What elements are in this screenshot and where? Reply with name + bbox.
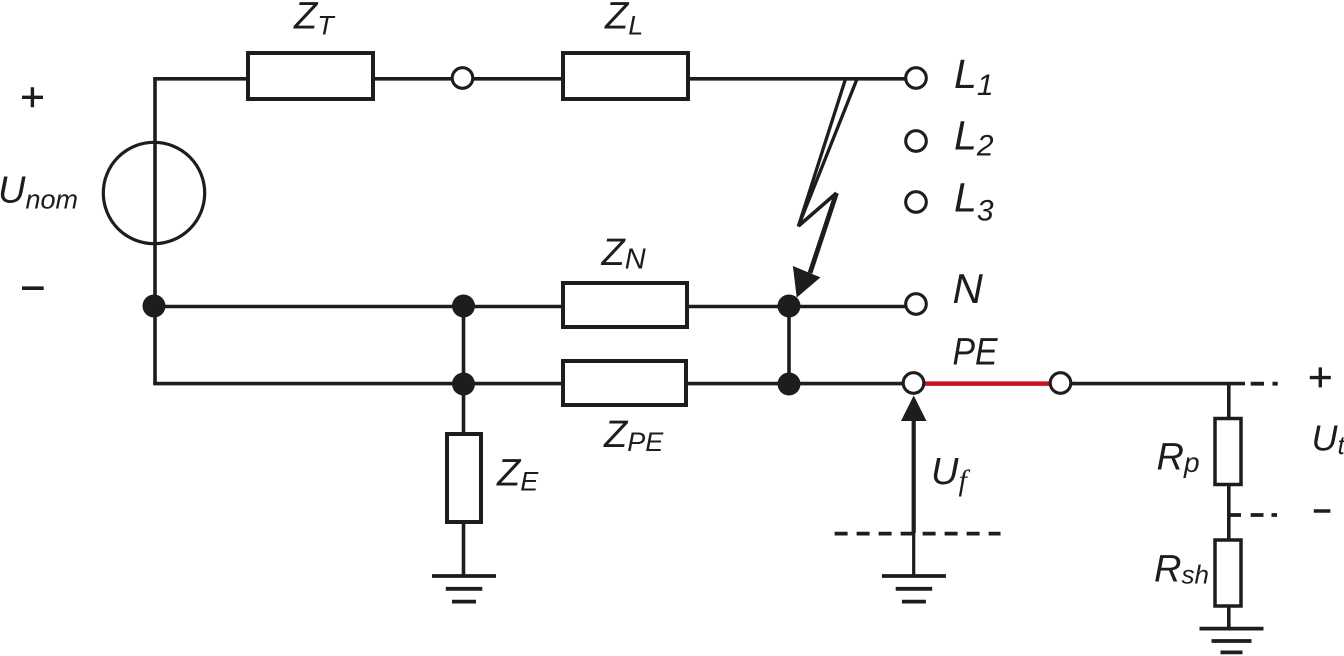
label plus right xyxy=(1310,367,1331,387)
node open terminal between ZT and ZL xyxy=(452,68,473,89)
wire left vertical from top row through source to PE row xyxy=(153,79,157,384)
voltage arrow Uf head xyxy=(901,396,927,422)
wire vertical x789 between N and PE rows xyxy=(787,307,791,385)
label L2 xyxy=(954,113,994,163)
resistor ZN xyxy=(563,283,687,327)
label Unom xyxy=(0,170,78,215)
terminal L3 xyxy=(906,192,927,213)
svg-text:Rp: Rp xyxy=(1157,437,1200,479)
label ZN xyxy=(601,232,646,276)
label minus right xyxy=(1314,509,1331,512)
wire PE row from source branch to ZPE xyxy=(153,382,563,386)
svg-text:L2: L2 xyxy=(954,113,994,163)
tick and dashes at minus terminal xyxy=(1229,513,1277,517)
svg-text:ZN: ZN xyxy=(601,232,646,276)
svg-text:Ut: Ut xyxy=(1312,418,1344,461)
voltage arrow Uf stem xyxy=(912,420,916,576)
wire N row from source to ZN xyxy=(153,305,563,309)
node junction dot N row x789 xyxy=(778,295,801,318)
wire ZN to N terminal xyxy=(687,305,905,309)
resistor Rsh xyxy=(1215,540,1241,606)
svg-text:ZT: ZT xyxy=(293,0,336,41)
wire ZE to ground xyxy=(462,522,466,576)
wire ZT to ZL xyxy=(373,77,563,81)
ground under Uf arrow xyxy=(882,576,946,602)
ground right under Rsh xyxy=(1200,629,1264,653)
dashed earth potential line xyxy=(835,532,1001,536)
wire ZE branch from PE row down xyxy=(462,384,466,434)
node junction dot PE row x463 xyxy=(452,373,475,396)
node junction dot at source minus xyxy=(143,295,166,318)
svg-text:L3: L3 xyxy=(954,174,994,227)
label plus left of source xyxy=(22,87,43,107)
label L3 xyxy=(954,174,994,227)
resistor ZT xyxy=(248,53,373,99)
label ZPE xyxy=(603,414,664,457)
svg-text:ZE: ZE xyxy=(496,453,539,497)
svg-text:L1: L1 xyxy=(954,51,994,102)
ground under ZE xyxy=(432,576,496,602)
svg-text:Rsh: Rsh xyxy=(1154,549,1209,591)
label Uf xyxy=(931,451,970,497)
lightning fault arrow from L1 wire to N node xyxy=(794,79,857,296)
wire ZL to L1 xyxy=(688,77,905,81)
voltage source Unom xyxy=(103,142,204,243)
resistor ZPE xyxy=(563,361,686,405)
terminal L2 xyxy=(906,131,927,152)
wire vertical down to Rp xyxy=(1227,384,1231,419)
resistor ZE xyxy=(447,434,481,522)
svg-text:ZL: ZL xyxy=(604,0,643,41)
terminal N xyxy=(906,294,927,315)
terminal PE right xyxy=(1050,373,1071,394)
wire between Rp and Rsh xyxy=(1227,485,1231,541)
label Rsh xyxy=(1154,549,1209,591)
node junction dot PE row x789 xyxy=(778,373,801,396)
wire vertical x463 between N and PE rows xyxy=(462,307,466,385)
svg-text:N: N xyxy=(953,265,984,312)
label N xyxy=(953,265,984,312)
label PE xyxy=(953,331,999,373)
label L1 xyxy=(954,51,994,102)
label Ut xyxy=(1312,418,1344,461)
svg-text:Unom: Unom xyxy=(0,170,78,215)
wire PE right terminal to measuring branch xyxy=(1072,382,1245,386)
resistor Rp xyxy=(1215,419,1241,485)
label Rp xyxy=(1157,437,1200,479)
wire Rsh to ground xyxy=(1227,606,1231,629)
label ZE xyxy=(496,453,539,497)
wire top row source to ZT xyxy=(153,77,248,81)
dashed stub at plus terminal xyxy=(1251,382,1278,386)
faulty PE conductor red wire xyxy=(922,381,1052,386)
wire ZPE to PE terminal xyxy=(686,382,902,386)
label ZT xyxy=(293,0,336,41)
resistor ZL xyxy=(563,53,688,99)
terminal L1 xyxy=(906,68,927,89)
svg-text:PE: PE xyxy=(953,331,999,373)
svg-text:ZPE: ZPE xyxy=(603,414,664,457)
label ZL xyxy=(604,0,643,41)
label minus left of source xyxy=(22,286,44,290)
terminal PE left xyxy=(903,373,924,394)
svg-text:Uf: Uf xyxy=(931,451,970,497)
node junction dot N row x463 xyxy=(452,295,475,318)
